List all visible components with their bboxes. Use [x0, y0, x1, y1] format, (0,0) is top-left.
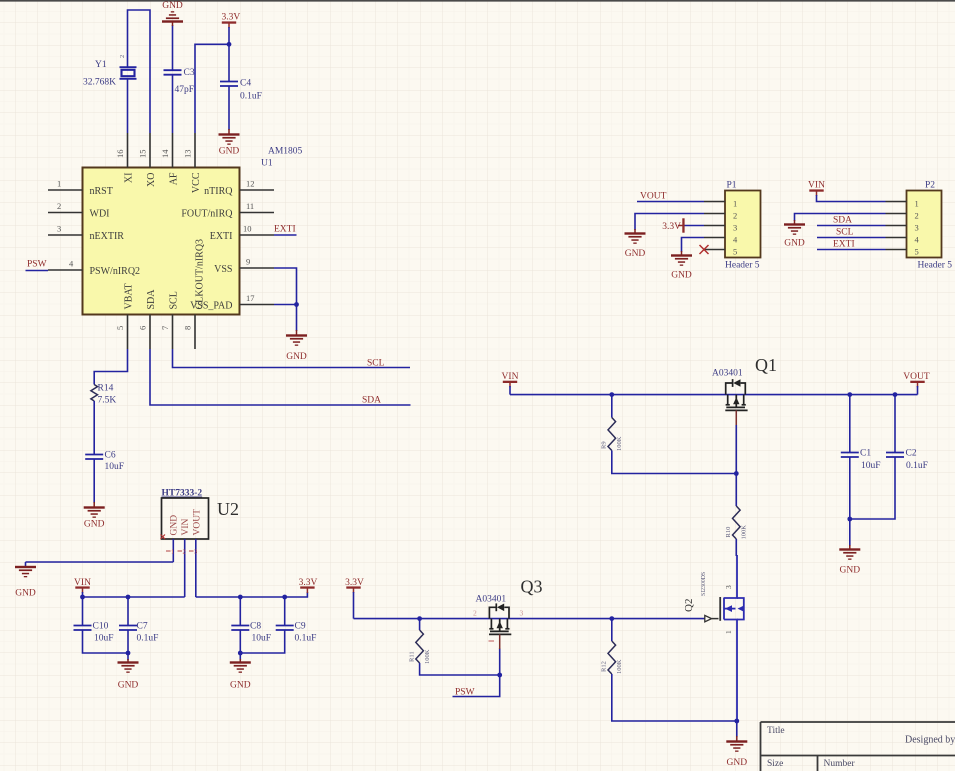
- IC U1 AM1805 body: [83, 168, 240, 315]
- U1 pin 17 VSS_PAD: [190, 293, 274, 311]
- wire AF to C3: [172, 75, 174, 133]
- wire VIN down: [509, 386, 511, 395]
- P2 pin 5: [886, 247, 919, 257]
- svg-text:AF: AF: [169, 172, 180, 185]
- wire C6 to ground: [93, 459, 95, 503]
- svg-text:C2: C2: [906, 449, 917, 459]
- svg-text:SCL: SCL: [367, 359, 385, 369]
- ground symbol below U1: [296, 330, 298, 335]
- svg-text:9: 9: [246, 257, 250, 267]
- resistor R14: [91, 385, 98, 402]
- P2 pin 1: [886, 199, 919, 209]
- svg-text:AM1805: AM1805: [268, 147, 303, 157]
- ground top (above C3) flipped: [162, 1, 183, 26]
- svg-text:EXTI: EXTI: [274, 225, 296, 235]
- wire R14 to C6: [93, 401, 95, 455]
- svg-text:HT7333-2: HT7333-2: [162, 489, 203, 499]
- U2 body: [162, 498, 209, 539]
- svg-text:U1: U1: [261, 159, 273, 169]
- svg-text:5: 5: [733, 247, 737, 257]
- svg-text:A03401: A03401: [712, 369, 743, 379]
- svg-text:2: 2: [473, 609, 477, 618]
- capacitor C1: [841, 453, 859, 458]
- svg-text:1: 1: [915, 199, 919, 209]
- svg-text:3: 3: [915, 223, 919, 233]
- wire C2 drop: [894, 395, 896, 453]
- wire R11 top stub: [419, 619, 421, 630]
- svg-text:R9: R9: [601, 441, 608, 449]
- U1 bottom pin 6 SDA: [138, 289, 158, 349]
- svg-text:P1: P1: [727, 181, 737, 191]
- header P1 body: [725, 191, 761, 258]
- capacitor C2: [886, 453, 904, 458]
- P1 pin 4: [704, 235, 738, 245]
- power 3.3V top: [222, 13, 241, 29]
- wire R12 top stub: [611, 619, 613, 641]
- svg-text:32.768K: 32.768K: [83, 78, 116, 88]
- capacitor C8: [231, 626, 249, 631]
- svg-text:Header 5: Header 5: [725, 261, 760, 271]
- svg-text:nTIRQ: nTIRQ: [204, 186, 233, 197]
- wire VSS to GND: [274, 268, 297, 305]
- transistor Q1 A03401: [725, 379, 747, 410]
- svg-text:Q2: Q2: [683, 599, 695, 612]
- svg-text:EXTI: EXTI: [210, 231, 233, 242]
- svg-text:10uF: 10uF: [861, 461, 881, 471]
- svg-text:0.1uF: 0.1uF: [906, 461, 928, 471]
- U1 bottom pin 8 CLKOUT/nIRQ3: [183, 239, 206, 349]
- svg-text:SI2300DS: SI2300DS: [701, 572, 707, 596]
- svg-text:2: 2: [57, 201, 61, 211]
- svg-text:GND: GND: [84, 520, 105, 530]
- svg-text:R11: R11: [409, 651, 416, 662]
- wire VSS_PAD join: [274, 304, 297, 306]
- ground bottom right: [726, 736, 747, 768]
- capacitor C6: [85, 455, 103, 460]
- resistor R10: [733, 506, 741, 539]
- svg-text:0.1uF: 0.1uF: [295, 634, 317, 644]
- wire VIN rail: [83, 592, 185, 597]
- wire C1 bottom: [849, 457, 851, 546]
- U1 pin 12 nTIRQ: [204, 179, 274, 197]
- P2 pin 4: [886, 235, 920, 245]
- wire PSW to pin 4: [26, 270, 49, 272]
- wire VBAT to R14: [94, 349, 127, 385]
- no-ERC cross P1.5: [700, 245, 709, 254]
- P2 pin 2: [886, 211, 919, 221]
- svg-text:2: 2: [119, 55, 126, 58]
- svg-text:CLKOUT/nIRQ3: CLKOUT/nIRQ3: [195, 239, 206, 310]
- svg-text:10uF: 10uF: [94, 634, 114, 644]
- svg-text:7: 7: [160, 326, 170, 330]
- svg-text:GND: GND: [286, 352, 307, 362]
- capacitor C4: [220, 82, 238, 87]
- svg-text:PSW/nIRQ2: PSW/nIRQ2: [90, 266, 141, 277]
- wire R9 bottom to Q1 gate node: [612, 451, 737, 474]
- svg-text:10: 10: [243, 224, 252, 234]
- svg-text:GND: GND: [162, 1, 183, 11]
- svg-text:XI: XI: [124, 173, 135, 184]
- svg-text:2: 2: [183, 549, 186, 556]
- svg-text:VBAT: VBAT: [124, 283, 135, 309]
- svg-text:1: 1: [171, 549, 174, 556]
- svg-text:3: 3: [733, 223, 737, 233]
- wire SDA to P2.3: [817, 225, 886, 227]
- svg-text:SCL: SCL: [169, 291, 180, 309]
- U2 pin 2 VIN: [178, 518, 192, 597]
- wire EXTI net: [274, 234, 297, 236]
- U2 pin 1 GND: [166, 515, 180, 562]
- wire gate arrow to Q2: [705, 615, 712, 621]
- svg-text:GND: GND: [840, 566, 861, 576]
- svg-text:47pF: 47pF: [175, 85, 195, 95]
- svg-text:nRST: nRST: [90, 186, 113, 197]
- resistor R12: [608, 641, 616, 674]
- capacitor C3: [164, 70, 182, 75]
- wire crystal top loop: [128, 10, 151, 133]
- svg-text:17: 17: [246, 293, 255, 303]
- wire C7 bottom: [127, 630, 129, 660]
- svg-text:3.3V: 3.3V: [662, 222, 681, 232]
- svg-text:3: 3: [194, 549, 197, 556]
- wire C4 to ground: [228, 86, 230, 130]
- ground P1 pin2: [625, 229, 646, 259]
- power VIN for Q1 rail: [502, 372, 519, 387]
- svg-text:Number: Number: [824, 759, 856, 769]
- svg-text:GND: GND: [118, 681, 139, 691]
- wire P2.2 to ground: [795, 214, 886, 222]
- wire R10 to Q2 drain: [735, 539, 737, 556]
- junction C1-C2 gnd: [847, 517, 852, 522]
- junction C9 top: [282, 595, 287, 600]
- power 3.3V sideways at P1: [662, 218, 684, 232]
- svg-text:P2: P2: [925, 181, 935, 191]
- svg-text:R14: R14: [98, 384, 114, 394]
- transistor Q3 A03401: [489, 603, 511, 634]
- svg-text:A03401: A03401: [476, 595, 507, 605]
- wire 3.3V down to rail: [353, 592, 355, 619]
- U1 pin 11 FOUT/nIRQ: [181, 201, 274, 219]
- svg-text:VIN: VIN: [808, 181, 825, 191]
- ground P1 pin4: [671, 251, 692, 281]
- svg-text:13: 13: [183, 150, 193, 159]
- wire C3 to top ground: [172, 25, 174, 70]
- wire down to ground: [736, 721, 738, 737]
- svg-text:C3: C3: [184, 68, 195, 78]
- svg-text:3: 3: [724, 585, 733, 589]
- svg-text:100K: 100K: [616, 436, 623, 451]
- power VIN at P2: [808, 181, 825, 197]
- svg-text:EXTI: EXTI: [833, 240, 855, 250]
- wire P1.3 to 3.3V: [684, 225, 704, 227]
- svg-text:GND: GND: [727, 758, 748, 768]
- junction VCC node: [227, 42, 232, 47]
- P1 pin 5: [704, 247, 737, 257]
- wire C9 bottom: [240, 630, 284, 653]
- wire P1.2 to ground: [635, 214, 704, 231]
- svg-text:Header 5: Header 5: [918, 261, 953, 271]
- svg-text:VCC: VCC: [191, 172, 202, 193]
- svg-text:VOUT: VOUT: [193, 509, 203, 536]
- ground below C7: [118, 659, 139, 691]
- svg-text:GND: GND: [230, 681, 251, 691]
- wire 3.3V down: [228, 27, 230, 44]
- wire Q1 gate down: [735, 425, 737, 506]
- U1 pin 1 nRST: [48, 179, 113, 197]
- wire VIN to P2.1: [817, 195, 886, 202]
- svg-text:GND: GND: [784, 239, 805, 249]
- Q2 gate lead: [712, 618, 719, 620]
- svg-text:SDA: SDA: [362, 396, 381, 406]
- junction VIN-C10: [80, 595, 85, 600]
- svg-text:3: 3: [520, 609, 524, 618]
- svg-text:3: 3: [57, 224, 61, 234]
- svg-text:1: 1: [733, 199, 737, 209]
- svg-text:1: 1: [724, 630, 733, 634]
- svg-text:SCL: SCL: [836, 228, 854, 238]
- svg-text:R10: R10: [725, 527, 732, 538]
- power 3.3V right of U2: [299, 578, 318, 593]
- svg-text:3.3V: 3.3V: [222, 13, 241, 23]
- svg-text:XO: XO: [146, 173, 157, 187]
- svg-text:2: 2: [915, 211, 919, 221]
- ground P2 pin2: [784, 220, 805, 249]
- junction Q3 gate node: [497, 673, 502, 678]
- ground below C8: [230, 659, 251, 691]
- wire C2 bottom to join: [850, 457, 895, 519]
- wire stub down: [25, 562, 27, 566]
- junction C8 top: [238, 595, 243, 600]
- junction C7 top: [126, 595, 131, 600]
- U1 pin 4 PSW/nIRQ2: [48, 259, 140, 277]
- svg-text:5: 5: [115, 326, 125, 330]
- svg-text:C8: C8: [250, 622, 261, 632]
- svg-text:C10: C10: [93, 622, 109, 632]
- wire VOUT down: [917, 386, 919, 395]
- ground left of U2: [15, 566, 36, 599]
- svg-text:GND: GND: [625, 249, 646, 259]
- svg-text:10uF: 10uF: [252, 634, 272, 644]
- svg-text:nEXTIR: nEXTIR: [90, 231, 125, 242]
- svg-text:16: 16: [115, 150, 125, 159]
- resistor R11: [416, 630, 424, 663]
- svg-text:0.1uF: 0.1uF: [240, 92, 262, 102]
- junction R12 top: [609, 616, 614, 621]
- svg-text:15: 15: [138, 150, 148, 159]
- wire U2 GND to left ground: [26, 561, 174, 563]
- svg-text:Title: Title: [767, 726, 785, 736]
- power VIN rail label: [74, 578, 91, 593]
- junction Q2 source gnd: [734, 719, 739, 724]
- capacitor C10: [74, 626, 92, 631]
- wire XI up to crystal: [127, 79, 129, 133]
- svg-text:C9: C9: [295, 622, 306, 632]
- svg-text:C6: C6: [105, 451, 116, 461]
- ground below C6: [84, 502, 105, 530]
- wire C9 drop: [284, 597, 286, 626]
- wire EXTI to P2.5: [817, 249, 886, 251]
- ground below C1: [839, 545, 860, 576]
- wire PSW: [453, 648, 500, 697]
- Q3 pin 1 mark: [489, 640, 495, 642]
- svg-text:100K: 100K: [616, 659, 623, 674]
- svg-text:PSW: PSW: [455, 688, 475, 698]
- svg-text:GND: GND: [170, 515, 180, 536]
- header P2 body: [907, 191, 942, 258]
- svg-text:FOUT/nIRQ: FOUT/nIRQ: [181, 208, 233, 219]
- wire C8 bottom: [239, 630, 241, 660]
- junction R9 top: [609, 392, 614, 397]
- resistor R9: [608, 418, 616, 451]
- crystal Y1: [119, 55, 137, 79]
- svg-text:VOUT: VOUT: [903, 372, 930, 382]
- svg-text:Q1: Q1: [755, 355, 777, 375]
- wire C1 drop: [849, 395, 851, 453]
- title block border: [761, 722, 955, 771]
- U2 pin 3 VOUT: [189, 509, 203, 597]
- svg-text:GND: GND: [671, 271, 692, 281]
- U1 top pin 14 AF: [160, 133, 180, 185]
- svg-text:VIN: VIN: [181, 518, 191, 535]
- junction Q1 gate node: [734, 471, 739, 476]
- svg-text:11: 11: [246, 201, 254, 211]
- svg-text:100K: 100K: [741, 525, 748, 540]
- wire P1.4 to ground: [682, 238, 705, 253]
- P2 pin 3: [886, 223, 919, 233]
- U1 pin 2 WDI: [48, 201, 110, 219]
- svg-text:U2: U2: [217, 499, 239, 519]
- wire C7 drop: [127, 597, 129, 626]
- wire R11 bottom to gate: [420, 663, 500, 675]
- power 3.3V for Q3 branch: [345, 578, 364, 593]
- svg-text:Size: Size: [767, 759, 783, 769]
- junction VSS node: [294, 302, 299, 307]
- svg-text:C7: C7: [137, 622, 148, 632]
- Q1 gate pin stub: [735, 410, 737, 425]
- svg-text:2: 2: [733, 211, 737, 221]
- svg-text:0.1uF: 0.1uF: [137, 634, 159, 644]
- svg-text:R12: R12: [601, 661, 608, 672]
- svg-text:SDA: SDA: [833, 216, 852, 226]
- junction C1 top: [847, 392, 852, 397]
- Q3 gate pin stub: [499, 634, 501, 649]
- wire C10 drop: [82, 597, 84, 626]
- wire down to C4: [228, 44, 230, 81]
- junction C8-C9 gnd: [238, 651, 243, 656]
- svg-text:12: 12: [246, 179, 255, 189]
- svg-text:10uF: 10uF: [105, 462, 125, 472]
- P1 pin 2: [704, 211, 737, 221]
- transistor Q2 SI2300: [720, 555, 744, 721]
- U1 top pin 15 XO: [138, 133, 158, 187]
- wire C8 drop: [239, 597, 241, 626]
- P1 pin 1: [704, 199, 737, 209]
- P1 pin 3: [704, 223, 737, 233]
- wire down to ground: [296, 305, 298, 332]
- svg-text:GND: GND: [219, 147, 240, 157]
- svg-text:7.5K: 7.5K: [98, 396, 117, 406]
- power VOUT: [903, 372, 930, 387]
- wire rail 3.3V to Q2 gate: [354, 618, 706, 620]
- svg-text:5: 5: [915, 247, 919, 257]
- svg-text:Y1: Y1: [95, 60, 107, 70]
- svg-text:8: 8: [183, 326, 193, 330]
- svg-text:PSW: PSW: [27, 260, 47, 270]
- U1 pin 3 nEXTIR: [48, 224, 124, 242]
- svg-text:WDI: WDI: [90, 208, 110, 219]
- svg-text:1: 1: [57, 179, 61, 189]
- wire VIN rail to VOUT: [510, 394, 918, 396]
- wire to VCC pin: [195, 44, 229, 133]
- wire SCL from pin 7: [173, 349, 411, 368]
- wire R9 top stub: [611, 395, 613, 418]
- wire SCL to P2.4: [817, 237, 886, 239]
- U1 bottom pin 7 SCL: [160, 291, 180, 349]
- wire SDA from pin 6: [150, 349, 411, 405]
- svg-text:C4: C4: [240, 79, 251, 89]
- ground below C4: [219, 129, 240, 157]
- U1 top pin 13 VCC: [183, 133, 203, 193]
- junction C7-C10 gnd: [126, 651, 131, 656]
- wire C10 bottom: [83, 630, 129, 653]
- U1 top pin 16 XI: [115, 133, 135, 183]
- capacitor C9: [276, 626, 294, 631]
- U2 corner no-ERC marker: [161, 535, 166, 540]
- svg-text:100K: 100K: [424, 649, 431, 664]
- svg-text:Q3: Q3: [521, 577, 543, 597]
- svg-text:GND: GND: [15, 589, 36, 599]
- svg-text:14: 14: [160, 149, 170, 158]
- svg-text:VOUT: VOUT: [640, 192, 667, 202]
- wire VOUT rail of U2: [196, 592, 308, 597]
- svg-text:Designed by: Designed by: [905, 735, 955, 746]
- U1 pin 10 EXTI: [210, 224, 274, 242]
- svg-text:6: 6: [138, 326, 148, 330]
- svg-text:C1: C1: [860, 449, 871, 459]
- junction C2 top: [893, 392, 898, 397]
- U1 pin 9 VSS: [214, 257, 274, 275]
- U1 bottom pin 5 VBAT: [115, 283, 135, 349]
- junction R11 top: [417, 616, 422, 621]
- svg-text:SDA: SDA: [146, 289, 157, 310]
- wire R12 bottom to Q2 source: [612, 674, 737, 721]
- capacitor C7: [119, 626, 137, 631]
- wire VOUT to P1.1: [637, 201, 704, 203]
- svg-text:VSS: VSS: [214, 264, 232, 275]
- svg-text:VIN: VIN: [502, 372, 519, 382]
